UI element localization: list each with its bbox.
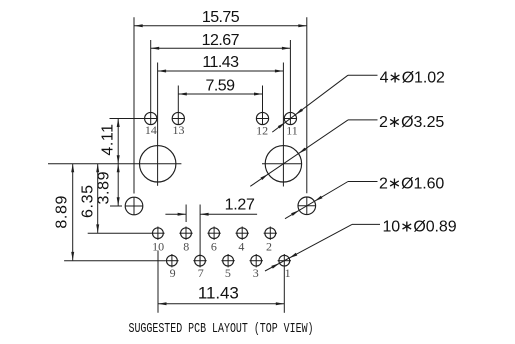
pin 1 (Ø0.89) [278,254,291,267]
svg-text:11.43: 11.43 [198,283,239,302]
svg-text:6: 6 [211,239,217,253]
pin label 1 [285,266,291,280]
svg-text:8: 8 [183,239,189,253]
svg-text:4: 4 [238,239,244,253]
hole 11 (Ø1.02) [284,112,297,125]
hole label 11 [286,124,298,138]
hole 12 (Ø1.02) [256,112,269,125]
mounting hole right (Ø3.25) [262,146,302,182]
callout 10*Ø0.89 with leader to pin 1 [265,219,457,271]
svg-text:12: 12 [256,124,268,138]
svg-text:2∗Ø3.25: 2∗Ø3.25 [379,114,444,131]
callout 2*Ø3.25 with leader to right mounting hole [250,114,444,186]
pin label 4 [238,239,244,253]
dimension 11.43 bottom (pin row span) [158,251,284,313]
title SUGGESTED PCB LAYOUT (TOP VIEW) [129,321,314,337]
svg-text:2∗Ø1.60: 2∗Ø1.60 [379,176,444,193]
mounting hole left (Ø3.25) [140,146,176,182]
callout 4*Ø1.02 with leader to hole 11 [272,69,445,132]
svg-text:7.59: 7.59 [206,77,236,94]
pin 10 (Ø0.89) [151,227,164,240]
pin 6 (Ø0.89) [207,227,220,240]
pin label 3 [253,266,259,280]
svg-text:10: 10 [152,239,164,253]
hole left (Ø1.60) [125,197,143,215]
hole label 12 [256,124,268,138]
pin 5 (Ø0.89) [221,254,234,267]
pin 7 (Ø0.89) [193,254,206,267]
svg-text:11.43: 11.43 [202,54,239,71]
pin label 8 [183,239,189,253]
hole label 14 [145,123,157,137]
dimension 6.35 [79,164,99,233]
pin 9 (Ø0.89) [165,254,178,267]
pin label 6 [211,239,217,253]
pin 4 (Ø0.89) [236,227,249,240]
extension line row holes 14-11 [110,118,145,120]
svg-text:13: 13 [173,123,185,137]
svg-text:1.27: 1.27 [225,197,255,214]
svg-text:10∗Ø0.89: 10∗Ø0.89 [383,219,457,236]
svg-text:4.11: 4.11 [100,123,117,155]
dimension 7.59 (holes 13-12 span) [178,77,262,112]
svg-text:1: 1 [285,266,291,280]
svg-text:6.35: 6.35 [79,184,96,218]
extension line bottom pin row [64,260,165,262]
svg-text:2: 2 [266,239,272,253]
pin label 2 [266,239,272,253]
pin 2 (Ø0.89) [264,227,277,240]
hole 13 (Ø1.02) [172,112,185,125]
hole label 13 [173,123,185,137]
pin 3 (Ø0.89) [250,254,263,267]
reference line through big circle centers [48,163,181,165]
pin label 9 [170,266,176,280]
svg-text:11: 11 [286,124,298,138]
svg-text:7: 7 [198,266,204,280]
dimension 4.11 [100,119,120,164]
pin label 7 [198,266,204,280]
hole right (Ø1.60) [298,197,316,215]
dimension 1.27 (pin column pitch) [165,197,257,268]
svg-text:12.67: 12.67 [202,32,240,49]
svg-text:5: 5 [225,266,231,280]
svg-text:4∗Ø1.02: 4∗Ø1.02 [380,69,445,86]
pin label 10 [152,239,164,253]
dimension 3.89 [96,164,120,206]
dimension 12.67 (holes 14-11 span) [151,32,291,113]
dimension 8.89 [54,164,75,261]
svg-text:14: 14 [145,123,157,137]
svg-text:9: 9 [170,266,176,280]
svg-text:3: 3 [253,266,259,280]
hole 14 (Ø1.02) [144,112,157,125]
svg-text:8.89: 8.89 [54,195,71,229]
extension line top pin row [88,232,152,234]
pin 8 (Ø0.89) [179,227,192,240]
callout 2*Ø1.60 with leader to right 1.60 hole [285,176,444,219]
svg-text:SUGGESTED PCB LAYOUT (TOP VIEW: SUGGESTED PCB LAYOUT (TOP VIEW) [129,321,314,337]
dimension 11.43 top (big circle span) [158,54,284,186]
pin label 5 [225,266,231,280]
extension tick row 1.60 holes [110,205,122,207]
svg-text:15.75: 15.75 [202,9,240,26]
dimension 15.75 (outer hole span) [134,9,307,194]
